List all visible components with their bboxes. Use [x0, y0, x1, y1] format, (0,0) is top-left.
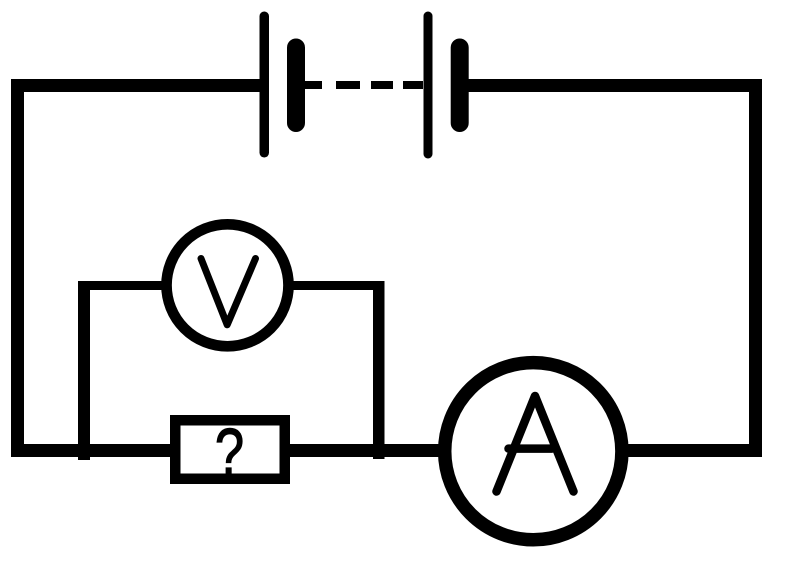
- ammeter A1 circle: [445, 363, 622, 540]
- svg-text:?: ?: [215, 415, 244, 489]
- voltmeter V label: [201, 259, 256, 325]
- battery dashed link stub 2: [403, 81, 423, 89]
- battery B1 cell 1 long plate (positive): [260, 12, 270, 158]
- battery dashed link dash 2: [371, 81, 393, 89]
- battery B1 cell 2 short thick plate (negative): [451, 39, 469, 133]
- wire top-right segment (battery to right corner): [467, 79, 762, 92]
- wire voltmeter-branch right vertical: [373, 281, 385, 459]
- wire voltmeter-branch left vertical: [78, 281, 90, 460]
- battery dashed link stub 1: [305, 81, 322, 89]
- wire right vertical: [749, 79, 762, 457]
- battery B1 cell 2 long plate (positive): [424, 12, 433, 159]
- wire bottom: [11, 444, 762, 457]
- ammeter A label: [497, 396, 574, 492]
- battery B1 cell 1 short thick plate (negative): [287, 39, 305, 133]
- wire top-left segment (node from left corner to battery): [11, 79, 262, 92]
- wire left vertical: [11, 79, 24, 457]
- battery dashed link dash 1: [336, 81, 360, 89]
- unknown component R? box: [175, 420, 285, 479]
- wire voltmeter-branch horizontal: [81, 281, 384, 290]
- voltmeter V1 circle: [167, 224, 289, 346]
